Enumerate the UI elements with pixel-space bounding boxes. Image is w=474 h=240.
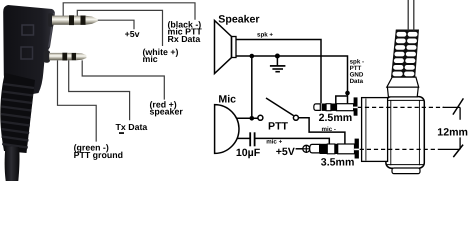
wire PTT to 3.5mm ring (mic -) [298,118,345,149]
cable [5,146,20,181]
wire mic bottom to capacitor [237,137,250,139]
strain relief woven boot [391,30,419,78]
body emboss mark upper [22,25,34,35]
wire into connector right [413,0,415,31]
svg-text:mic -: mic - [322,126,336,133]
switch PTT [258,115,263,120]
svg-text:Tx Data: Tx Data [116,122,148,132]
wire spk+ [236,40,321,104]
node gnd branch junction [345,91,350,96]
svg-text:2.5mm: 2.5mm [319,112,353,124]
svg-text:Speaker: Speaker [218,14,259,26]
front nut [362,98,388,162]
dashed centerline 2.5mm [358,106,444,108]
svg-text:Data: Data [350,78,364,85]
svg-text:+5v: +5v [125,29,140,39]
wire: top plug sleeve to (black -) label [63,3,195,20]
cable boot (ribbed) [0,73,35,153]
wire spk- [236,56,348,103]
svg-text:3.5mm: 3.5mm [321,157,355,169]
wire +5V to supply symbol [296,148,303,150]
dashed centerline 3.5mm [360,148,444,150]
svg-text:Rx Data: Rx Data [168,34,201,44]
wire: bottom plug ring to Tx Data label [69,60,130,120]
svg-text:Mic: Mic [218,94,236,106]
wire: bottom plug tip to (red +) label [82,60,164,99]
svg-text:PTT: PTT [268,121,289,133]
supply symbol circle-plus [303,145,310,152]
node ground junction [275,54,280,59]
capacitor C1 10uF [249,132,251,146]
svg-text:mic: mic [143,54,158,64]
body emboss mark lower [21,47,33,59]
2.5mm plug drawing [314,97,358,115]
svg-text:12mm: 12mm [437,126,468,138]
svg-text:PTT ground: PTT ground [74,150,123,160]
ground [276,56,278,65]
connector photo body [3,5,55,97]
wire: top plug tip to +5v label [98,20,134,29]
svg-text:speaker: speaker [150,106,184,116]
svg-text:10µF: 10µF [236,147,261,159]
node mic junction [250,116,255,121]
wire: bottom plug sleeve to (green -) label [58,60,97,141]
cylinder [386,97,424,169]
strain relief flare [387,77,419,87]
wire speaker-minus down to mic node [251,56,253,118]
wire mic top to PTT [237,117,258,119]
wire capacitor to 3.5mm contact (mic +) [255,138,330,148]
dimension 12mm [443,107,461,119]
3.5mm plug drawing [310,139,360,159]
wire: top plug ring to (white +) label [77,10,162,46]
bottom step [392,168,420,174]
svg-text:+5V: +5V [276,146,295,158]
earpiece connector body [362,0,425,174]
2.5mm plug (photo, bottom) [44,50,87,62]
node speaker-minus junction [250,54,255,59]
wire gnd branch to 2.5mm ring [336,96,348,104]
svg-text:spk +: spk + [257,32,273,39]
wire into connector left [407,0,409,31]
svg-text:mic +: mic + [266,139,282,146]
3.5mm plug (photo, top) [48,13,98,27]
